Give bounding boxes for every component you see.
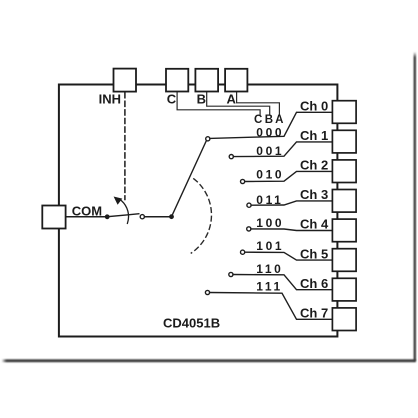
channel 6 wire xyxy=(233,275,332,290)
frame bottom shadow border xyxy=(2,359,416,362)
svg-text:CD4051B: CD4051B xyxy=(163,316,220,331)
channel 0 wire xyxy=(210,112,333,138)
svg-text:C: C xyxy=(254,114,262,126)
channel 7 contact circle xyxy=(205,290,209,294)
channel pin box 2 xyxy=(332,160,356,183)
svg-text:B: B xyxy=(197,92,206,107)
svg-text:101: 101 xyxy=(256,239,284,253)
channel pin box 5 xyxy=(332,249,356,272)
svg-text:COM: COM xyxy=(72,203,102,218)
channel 5 wire xyxy=(245,252,333,260)
channel pin box 1 xyxy=(332,130,356,153)
pin box COM xyxy=(42,206,65,229)
channel 5 contact circle xyxy=(241,250,245,254)
svg-text:Ch 5: Ch 5 xyxy=(300,246,328,261)
svg-text:C: C xyxy=(167,92,177,107)
svg-text:111: 111 xyxy=(256,280,283,294)
channel pin box 7 xyxy=(332,308,356,331)
channel 1 wire xyxy=(233,142,332,157)
svg-text:Ch 1: Ch 1 xyxy=(300,128,328,143)
pin box INH xyxy=(114,69,137,92)
svg-text:001: 001 xyxy=(256,144,284,158)
pin box B xyxy=(195,69,218,92)
control wire from B box to B select node xyxy=(207,92,270,115)
channel 2 wire xyxy=(245,171,333,181)
IC body CD4051B outline xyxy=(59,85,338,337)
svg-text:Ch 4: Ch 4 xyxy=(300,217,329,232)
svg-text:Ch 6: Ch 6 xyxy=(300,276,328,291)
channel 1 contact circle xyxy=(229,155,233,159)
svg-text:000: 000 xyxy=(256,126,284,140)
frame right shadow border xyxy=(414,52,416,361)
COM wire xyxy=(66,216,106,218)
svg-text:100: 100 xyxy=(256,216,284,230)
channel 7 wire xyxy=(210,293,333,320)
dashed wiper travel arc xyxy=(191,179,211,253)
svg-text:Ch 2: Ch 2 xyxy=(300,158,328,173)
channel pin box 4 xyxy=(332,219,356,242)
channel 4 wire xyxy=(251,229,333,231)
channel pin box 6 xyxy=(332,278,356,301)
channel 3 contact circle xyxy=(247,203,251,207)
control wire from A box to A select node xyxy=(237,92,280,115)
svg-text:110: 110 xyxy=(256,262,283,276)
channel pin box 0 xyxy=(332,101,356,124)
svg-text:010: 010 xyxy=(256,168,284,182)
INH dashed control line xyxy=(124,93,126,200)
channel 2 contact circle xyxy=(241,179,245,183)
channel 3 wire xyxy=(251,201,332,205)
wiper switch blade xyxy=(107,214,139,217)
wire from contact to arm base xyxy=(145,216,170,218)
rotation arrow arc xyxy=(121,201,128,224)
svg-text:Ch 3: Ch 3 xyxy=(300,187,328,202)
junction dot pivot xyxy=(105,214,110,219)
switch open contact circle xyxy=(140,215,144,219)
wiper arm to channel 0 contact xyxy=(172,141,207,217)
svg-text:Ch 7: Ch 7 xyxy=(300,306,328,321)
svg-text:Ch 0: Ch 0 xyxy=(300,98,328,113)
svg-text:A: A xyxy=(227,92,237,107)
svg-text:B: B xyxy=(265,114,273,126)
pin box C xyxy=(166,69,188,92)
svg-text:011: 011 xyxy=(256,193,283,207)
channel 4 contact circle xyxy=(247,227,251,231)
channel 0 contact circle xyxy=(206,137,210,141)
control wire from C box to C select node xyxy=(177,92,260,115)
junction dot arm base xyxy=(169,214,174,219)
channel 6 contact circle xyxy=(229,272,233,276)
svg-text:A: A xyxy=(275,114,283,126)
svg-text:INH: INH xyxy=(99,91,121,106)
pin box A xyxy=(225,69,247,92)
rotation arrow head xyxy=(114,197,123,205)
channel pin box 3 xyxy=(332,190,356,213)
